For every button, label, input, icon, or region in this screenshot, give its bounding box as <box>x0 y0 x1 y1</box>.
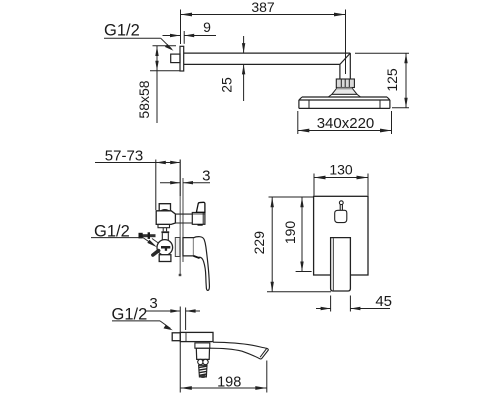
mixer neck stub <box>163 228 166 232</box>
svg-text:130: 130 <box>329 161 353 177</box>
rain shower head (side view) <box>299 97 390 108</box>
dimension 45 <box>316 296 390 312</box>
leader arrowhead G1/2 middle <box>147 240 157 248</box>
svg-text:57-73: 57-73 <box>105 148 143 165</box>
lever underside shadow <box>194 256 200 258</box>
wall line end blob <box>179 274 182 276</box>
svg-text:340x220: 340x220 <box>317 115 375 132</box>
lever handle (side view) <box>194 237 210 291</box>
leader arrowhead G1/2 top <box>165 44 174 51</box>
mixer upper body step <box>158 224 170 227</box>
mixer upper port cap <box>159 204 170 212</box>
connector nut at drop pipe <box>336 79 354 88</box>
wall flange (58x58) of shower arm <box>180 46 184 71</box>
dimension 25 (arm tube) <box>243 36 245 101</box>
lever handle (front view) <box>331 238 351 291</box>
stop valve body (right of plate) <box>192 213 205 225</box>
svg-text:3: 3 <box>149 295 157 312</box>
dimension 198 <box>180 361 266 393</box>
spout blade <box>210 342 268 359</box>
handle collar (side view) <box>183 238 194 256</box>
shower arm tube <box>184 53 351 79</box>
bleed screw rod <box>139 232 160 243</box>
dimension 229 <box>267 197 331 292</box>
wall line (spout) <box>179 307 181 333</box>
dimension 58x58 <box>150 46 180 123</box>
dimension 340x220 <box>298 111 392 134</box>
angled stub lower-left <box>153 251 159 255</box>
svg-text:9: 9 <box>203 19 211 35</box>
svg-text:125: 125 <box>384 68 400 92</box>
dimension 3 (mixer plate) <box>160 182 210 184</box>
inlet circle (G1/2) <box>157 240 173 256</box>
aerator balls <box>198 359 203 364</box>
svg-text:198: 198 <box>217 374 241 390</box>
dimension 125 <box>355 53 409 107</box>
spout flange edge <box>185 332 187 341</box>
neck cap bar <box>161 231 169 233</box>
flare cone under nut <box>328 88 360 98</box>
dimension 3 (spout) <box>146 308 200 331</box>
mixer upper body <box>156 211 175 225</box>
spout collar <box>195 343 210 348</box>
mixer face plate <box>314 196 368 275</box>
arm bend (miter) <box>340 53 350 64</box>
leader line G1/2 top <box>104 38 172 49</box>
svg-text:G1/2: G1/2 <box>104 21 140 39</box>
spout body <box>180 332 213 341</box>
svg-text:190: 190 <box>282 221 298 245</box>
wall nipple (spout) <box>172 333 180 341</box>
connector pipe to stop valve <box>175 214 192 223</box>
lower port <box>159 255 171 262</box>
wall line (mixer) <box>179 160 181 277</box>
diverter knob (front view) <box>335 201 347 223</box>
stop valve flag knob <box>196 202 205 212</box>
mixer neck pipe above inlet <box>162 233 168 240</box>
svg-text:3: 3 <box>202 167 210 184</box>
svg-text:25: 25 <box>219 77 235 93</box>
nut behind flange <box>171 54 180 63</box>
dimension 387 arrowheads <box>181 13 346 17</box>
svg-text:45: 45 <box>375 293 392 310</box>
extension line head centre (right of 387) <box>345 10 347 75</box>
spout tip inner line <box>260 349 267 358</box>
dimension 190 <box>296 197 312 271</box>
dimension 387 line <box>181 14 346 16</box>
threaded stub <box>199 365 207 377</box>
cartridge sleeve at wall <box>175 238 180 257</box>
svg-text:229: 229 <box>251 231 267 255</box>
dimension 9 (flange thickness) <box>163 31 217 44</box>
inlet circle inner mark <box>161 246 170 249</box>
plate front line (mixer) <box>182 178 184 262</box>
extension line wall (left of 387) <box>180 10 182 45</box>
spout valve cup <box>196 348 209 359</box>
svg-text:387: 387 <box>251 0 275 15</box>
drop pipe <box>339 64 341 79</box>
leader line G1/2 bottom <box>112 321 171 329</box>
svg-text:58x58: 58x58 <box>136 80 152 118</box>
dimension 57-73 <box>95 160 180 211</box>
threaded stub end <box>199 375 206 378</box>
leader arrowhead G1/2 bottom <box>164 325 173 330</box>
leader line G1/2 middle <box>91 238 155 246</box>
dimension 130 <box>314 174 368 196</box>
